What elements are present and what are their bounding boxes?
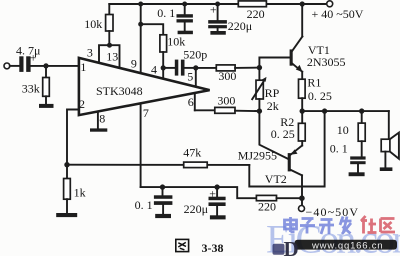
svg-text:3: 3 (87, 46, 93, 60)
wire input (10, 65, 20, 67)
node cap 220u bottom (214, 184, 219, 189)
svg-text:0. 1: 0. 1 (157, 6, 175, 20)
capacitor 0.1 top (157, 2, 193, 31)
resistor 33k (22, 66, 50, 104)
wire feedback to output (249, 111, 324, 186)
svg-text:13: 13 (106, 50, 118, 64)
transistor Q1 VT1 2N3055 (259, 4, 345, 79)
node pin4 (161, 65, 166, 70)
svg-text:RP: RP (265, 86, 280, 100)
capacitor 520p (163, 48, 207, 76)
svg-text:1: 1 (80, 60, 86, 74)
node output (300, 108, 305, 113)
svg-text:520p: 520p (183, 48, 207, 62)
node VT1 collector top (300, 1, 305, 6)
transistor Q2 VT2 MJ2955 (238, 146, 302, 206)
svg-text:10: 10 (337, 123, 349, 137)
terminal input (4, 63, 10, 69)
svg-text:4. 7μ: 4. 7μ (16, 44, 40, 58)
terminal -V (299, 206, 305, 212)
watermark black bar (295, 240, 398, 250)
svg-text:2: 2 (79, 97, 85, 111)
resistor 1k (64, 165, 86, 213)
capacitor 220u bottom (184, 186, 226, 216)
svg-text:R1: R1 (307, 75, 321, 89)
capacitor 220u top (208, 2, 252, 34)
potentiometer RP 2k (252, 68, 279, 113)
resistor 10k pin4 (141, 24, 186, 68)
svg-text:47k: 47k (183, 146, 201, 160)
node pin2/1k (64, 162, 69, 167)
svg-text:2k: 2k (267, 99, 279, 113)
svg-text:7: 7 (143, 106, 149, 120)
svg-text:D: D (284, 237, 299, 256)
ground (349, 172, 365, 176)
pin 8 stub and ground (90, 111, 107, 131)
ground (155, 214, 171, 218)
wire top positive rail (109, 3, 326, 5)
svg-text:8: 8 (99, 111, 105, 125)
svg-text:0. 25: 0. 25 (308, 89, 332, 103)
terminal +V (327, 1, 333, 7)
capacitor 0.1 bottom (135, 187, 173, 214)
resistor 10 (337, 111, 365, 156)
svg-text:6: 6 (188, 95, 194, 109)
ground (56, 213, 77, 217)
resistor R1 0.25 (299, 75, 332, 111)
resistor 300 upper (196, 65, 260, 83)
node negative rail (299, 195, 305, 201)
svg-text:www.qq166.cn: www.qq166.cn (311, 240, 383, 251)
node input (43, 63, 48, 68)
ground (210, 215, 226, 219)
svg-text:220μ: 220μ (228, 19, 252, 33)
resistor R2 0.25 (271, 111, 305, 146)
node RP bottom (257, 108, 262, 113)
svg-text:STK3048: STK3048 (96, 84, 143, 98)
node pin3/13 bracket (87, 43, 120, 68)
resistor 47k (183, 146, 207, 168)
resistor 220 top (238, 1, 266, 7)
svg-text:220μ: 220μ (184, 202, 208, 216)
node pin5 (193, 65, 198, 70)
svg-text:0. 25: 0. 25 (271, 127, 295, 141)
svg-text:300: 300 (218, 69, 236, 83)
svg-text:0. 1: 0. 1 (330, 142, 348, 156)
svg-text:+: + (210, 2, 217, 16)
svg-text:+: + (209, 186, 216, 200)
node RP top (257, 65, 262, 70)
wire pin4 stub (162, 68, 164, 79)
ground (210, 31, 225, 35)
svg-text:2N3055: 2N3055 (307, 55, 346, 69)
svg-text:0. 1: 0. 1 (135, 198, 153, 212)
wire output rail (302, 110, 389, 112)
wire pin2 (67, 110, 79, 165)
caption figure number (176, 239, 224, 255)
svg-text:9: 9 (131, 56, 137, 70)
svg-text:5: 5 (187, 70, 193, 84)
svg-text:220: 220 (258, 200, 276, 214)
svg-text:3-38: 3-38 (202, 241, 224, 255)
wire feedback 47k line (67, 164, 249, 166)
node cap 0.1 bottom (160, 184, 165, 189)
op-amp U1 STK3048 (79, 58, 210, 115)
ground (380, 167, 393, 171)
ground (178, 31, 193, 35)
wire negative feed lower (141, 187, 257, 198)
svg-text:33k: 33k (22, 82, 40, 96)
node feedback tap (322, 108, 327, 113)
capacitor 4.7u input (16, 44, 40, 72)
svg-text:1k: 1k (74, 185, 86, 199)
resistor 10k top-left (84, 4, 113, 45)
ground (39, 104, 54, 108)
speaker LS (381, 111, 399, 167)
resistor 220 bottom (256, 195, 301, 213)
wire pin6 stub (194, 93, 196, 110)
resistor 300 lower (195, 93, 260, 113)
wire to pin1 (31, 65, 79, 67)
svg-text:10k: 10k (84, 17, 102, 31)
wire pin7 vertical (141, 103, 149, 187)
wire pin9 vertical (131, 2, 143, 74)
wire VT2 base riser (259, 111, 287, 159)
watermark chinese row (285, 217, 352, 235)
svg-text:+ 40 ~50V: + 40 ~50V (312, 7, 364, 21)
wire pin5 stub (195, 68, 197, 85)
svg-text:300: 300 (217, 93, 235, 107)
svg-text:4: 4 (151, 62, 157, 76)
svg-text:VT2: VT2 (265, 172, 287, 186)
node zobel tap (359, 108, 364, 113)
capacitor 0.1 right (330, 142, 366, 173)
